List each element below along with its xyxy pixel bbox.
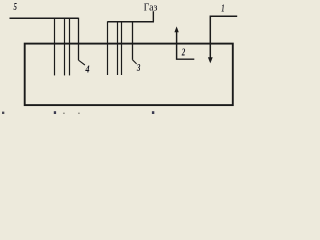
tube bundle 4, tube b <box>64 18 66 75</box>
pipe 2 step <box>177 32 195 60</box>
leader line 3 <box>133 60 137 64</box>
svg-text:4: 4 <box>85 63 90 75</box>
clipped caption fragment e <box>78 113 80 114</box>
gas riser pipe <box>152 11 154 22</box>
gas header pipe <box>108 21 155 23</box>
tube bundle 3, tube b <box>117 22 119 75</box>
tube bundle 4, tube d <box>78 18 80 61</box>
arrowhead up (pipe 2) <box>174 26 178 32</box>
svg-text:3: 3 <box>136 62 141 74</box>
leader line 4 <box>79 60 85 65</box>
clipped caption fragment c <box>152 111 154 114</box>
clipped caption fragment b <box>54 111 56 114</box>
svg-text:1: 1 <box>221 2 224 14</box>
clipped caption fragment a <box>2 112 4 114</box>
svg-text:2: 2 <box>181 47 186 59</box>
tube bundle 3, tube d <box>132 22 134 60</box>
tube bundle 3, tube a <box>107 21 109 75</box>
svg-text:5: 5 <box>14 1 18 13</box>
tube bundle 4, tube a <box>54 18 56 75</box>
pipe 1 <box>210 16 237 57</box>
tube bundle 3, tube c <box>121 22 123 75</box>
tube bundle 4, tube c <box>69 18 71 75</box>
arrowhead down (pipe 1) <box>208 57 213 63</box>
svg-text:Газ: Газ <box>144 2 158 13</box>
vessel shell <box>25 44 233 106</box>
pipe 5 header <box>10 17 79 19</box>
clipped caption fragment d <box>63 113 65 114</box>
